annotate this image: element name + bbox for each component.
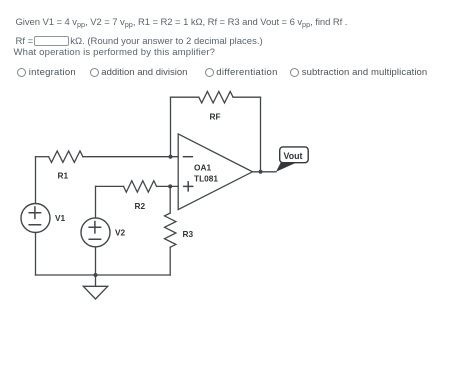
svg-text:R3: R3 <box>183 229 194 239</box>
wire: R1 left lead <box>36 156 49 158</box>
net label Vout <box>284 151 303 161</box>
wire: V2 bottom vertical <box>95 247 97 275</box>
op-amp part number TL081 <box>194 174 218 184</box>
wire: V1 bottom vertical <box>35 233 37 276</box>
resistor R2 <box>124 181 157 192</box>
value label R1 <box>58 171 69 181</box>
question line 2 with input box <box>16 36 263 46</box>
value label R2 <box>135 201 146 211</box>
resistor R3 <box>165 213 176 247</box>
value label RF <box>210 112 221 122</box>
wire: feedback right vertical drop to output <box>260 97 262 172</box>
value label R3 <box>183 229 194 239</box>
wire: bottom rail <box>36 274 171 276</box>
designator V1 <box>55 213 66 223</box>
Vout callout pointer <box>276 163 296 172</box>
op-amp designator OA1 <box>194 163 211 173</box>
wire: feedback top-right segment <box>233 96 260 98</box>
wire: feedback left vertical to inverting node <box>170 97 172 157</box>
svg-text:V1: V1 <box>55 213 66 223</box>
node: inverting input junction <box>169 155 173 159</box>
wire: R2 to non-inverting input <box>157 185 179 187</box>
wire: R3 top lead <box>169 186 171 213</box>
Vout label box <box>280 147 309 163</box>
svg-text:TL081: TL081 <box>194 174 218 184</box>
wire: R1 to inverting input <box>83 156 178 158</box>
node: output junction <box>259 170 263 174</box>
source V2 <box>81 218 110 247</box>
svg-text:R2: R2 <box>135 201 146 211</box>
svg-text:V2: V2 <box>115 228 126 238</box>
wire: ground stub <box>95 275 97 286</box>
radio option: subtraction and multiplication <box>290 68 427 78</box>
ground <box>83 286 107 299</box>
designator V2 <box>115 228 126 238</box>
wire: R2 left lead <box>96 185 124 187</box>
svg-text:Vout: Vout <box>284 151 303 161</box>
wire: feedback top-left segment <box>171 96 199 98</box>
radio option: addition and division <box>90 68 188 78</box>
resistor RF <box>199 92 233 103</box>
wire: R3 bottom lead <box>169 247 171 275</box>
resistor R1 <box>49 151 83 162</box>
node: ground junction <box>94 273 98 277</box>
node: non-inverting input junction <box>168 184 172 188</box>
op-amp minus input marker <box>184 156 193 158</box>
op-amp OA1 triangle <box>178 134 252 210</box>
wire: V2 top vertical <box>95 186 97 218</box>
radio option: differentiation <box>205 68 278 78</box>
svg-text:R1: R1 <box>58 171 69 181</box>
svg-text:RF: RF <box>210 112 221 122</box>
radio option: integration <box>17 68 76 78</box>
question line 1 <box>16 18 348 28</box>
wire: V1 top vertical <box>35 157 37 204</box>
svg-text:OA1: OA1 <box>194 163 211 173</box>
question line 3 <box>14 48 216 58</box>
op-amp plus input marker <box>184 182 193 191</box>
wire: op-amp output <box>253 171 277 173</box>
source V1 <box>21 204 50 233</box>
